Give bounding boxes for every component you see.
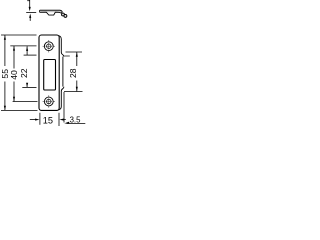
- svg-text:40: 40: [9, 70, 19, 80]
- dimension 22: arrows: [26, 46, 28, 51]
- dimension 55: line: [4, 35, 6, 66]
- front view: bent lip outline upper: [59, 36, 64, 57]
- extension line: lip edge extended down (for 3.5): [63, 92, 65, 123]
- svg-text:22: 22: [19, 68, 29, 78]
- svg-text:3.5: 3.5: [70, 115, 82, 124]
- profile view: plate bar (side view, top of drawing): [39, 10, 62, 15]
- front view: latch cutout: [44, 60, 56, 91]
- front view: plate body: [39, 35, 59, 110]
- profile view: curled lip ring 2: [64, 14, 67, 17]
- front view: screw hole bottom (inner): [47, 99, 51, 103]
- dimension 15: left arrow: [30, 119, 36, 121]
- thickness dimension: top tick: [27, 0, 30, 2]
- thickness dimension: extension line at bar bottom: [26, 11, 36, 13]
- front view: lip center dash top: [64, 55, 69, 57]
- front view: screw hole top center mark: [43, 45, 55, 47]
- front view: bent lip outline lower: [59, 87, 64, 110]
- front view: screw hole top (inner): [47, 44, 51, 48]
- dimension 3.5: leader arrow: [64, 122, 69, 124]
- extension line: lip bottom right (for 28): [64, 91, 83, 93]
- extension line: lip top right (for 28): [66, 51, 83, 53]
- dimension 3.5: shelf line: [67, 123, 86, 125]
- front view: screw hole bottom center mark: [43, 101, 55, 103]
- dimension 28: line: [76, 52, 78, 66]
- extension line: plate left edge (for 15): [39, 113, 41, 125]
- profile view: curled lip ring 1: [62, 13, 65, 16]
- front view: bent lip curl edge: [62, 57, 64, 87]
- svg-text:28: 28: [68, 68, 78, 78]
- svg-text:15: 15: [43, 116, 53, 126]
- profile view: dimple notch under bar: [46, 12, 55, 15]
- dimension 28: arrows: [76, 52, 78, 57]
- thickness dimension: vertical leader with down arrow: [29, 0, 31, 8]
- extension line: bottom hole center (for 40): [13, 101, 38, 103]
- dimension 40: line: [13, 46, 15, 69]
- extension line: lip bottom (for 22): [22, 86, 36, 88]
- extension line: top hole center (for 40): [10, 45, 36, 47]
- dimension 40: arrows: [13, 46, 15, 51]
- dimension 22: line: [26, 46, 28, 55]
- dimension 15: right arrow: [63, 119, 66, 121]
- front view: screw hole bottom (outer): [44, 97, 53, 106]
- thickness dimension: lower up-arrow and tail: [29, 14, 31, 18]
- extension line: lip top (for 22): [24, 54, 37, 56]
- extension line: plate top (for 55): [1, 34, 37, 36]
- extension line: plate bottom (for 55): [1, 109, 38, 111]
- extension line: plate right edge (for 15): [58, 113, 60, 126]
- dimension 55: arrows: [4, 35, 6, 40]
- front view: screw hole top (outer): [44, 42, 53, 51]
